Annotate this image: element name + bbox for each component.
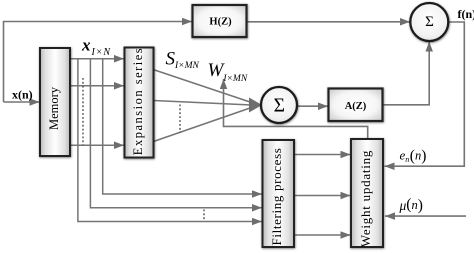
svg-text:Weight updating: Weight updating [358,150,373,247]
wire fan line 2 [154,101,252,106]
wire mid sum to A(Z) [297,105,329,107]
wire Filtering to Weight arrow 1 [294,154,351,156]
wire bus drop 2 to Filtering input 2 [90,59,262,208]
wire Memory to Expansion arrow 1 [70,58,124,60]
svg-text:Filtering process: Filtering process [269,147,284,245]
block Expansion series [125,47,154,158]
wire Memory to Expansion arrow 2 [70,85,124,87]
summer top sigma [410,3,448,41]
wire Memory to Expansion arrow 3 [70,144,124,146]
svg-text:μ(n): μ(n) [399,196,423,214]
block Weight updating [351,139,383,247]
svg-text:x(n): x(n) [12,88,33,102]
wire H(Z) to top sum [247,21,411,23]
summer mid sigma [261,87,297,123]
ellipsis dashed between filtering inputs [203,210,205,221]
svg-text:SI×MN: SI×MN [166,49,200,72]
svg-text:en(n): en(n) [400,148,427,165]
svg-text:Σ: Σ [425,14,434,30]
svg-text:f(n): f(n) [458,7,474,21]
wire Filtering to Weight arrow 3 [294,234,351,236]
wire fan line 3 [154,108,252,142]
wire top sum output and feedback to Weight updating [385,22,465,166]
svg-text:xI×N: xI×N [81,36,111,59]
ellipsis dashed between fan lines [179,105,181,134]
svg-text:H(Z): H(Z) [209,16,232,27]
svg-text:Memory: Memory [47,86,61,130]
wire fan S line 1 [154,70,252,103]
svg-text:A(Z): A(Z) [345,101,367,112]
wire x(n) branch vertical to H(Z) feed [4,22,193,103]
wire bus drop 1 to Filtering input 1 [103,59,262,194]
wire weight updating to W coefficients [224,79,368,139]
block H(Z) [193,5,247,37]
wire bus drop 3 to Filtering input 3 [78,59,262,222]
block Memory [40,48,70,156]
wire x(n) input into Memory [4,101,40,103]
block A(Z) [329,89,383,122]
arrowhead into mid sum [249,98,262,113]
svg-text:Σ: Σ [274,96,285,117]
ellipsis dashed between memory arrows [82,78,84,145]
block Filtering process [263,140,295,247]
svg-text:WI×MN: WI×MN [208,60,248,84]
wire Filtering to Weight arrow 2 [294,195,351,197]
wire A(Z) to top sum [383,42,429,105]
svg-text:Expansion series: Expansion series [131,47,145,155]
wire mu(n) input [385,215,466,217]
